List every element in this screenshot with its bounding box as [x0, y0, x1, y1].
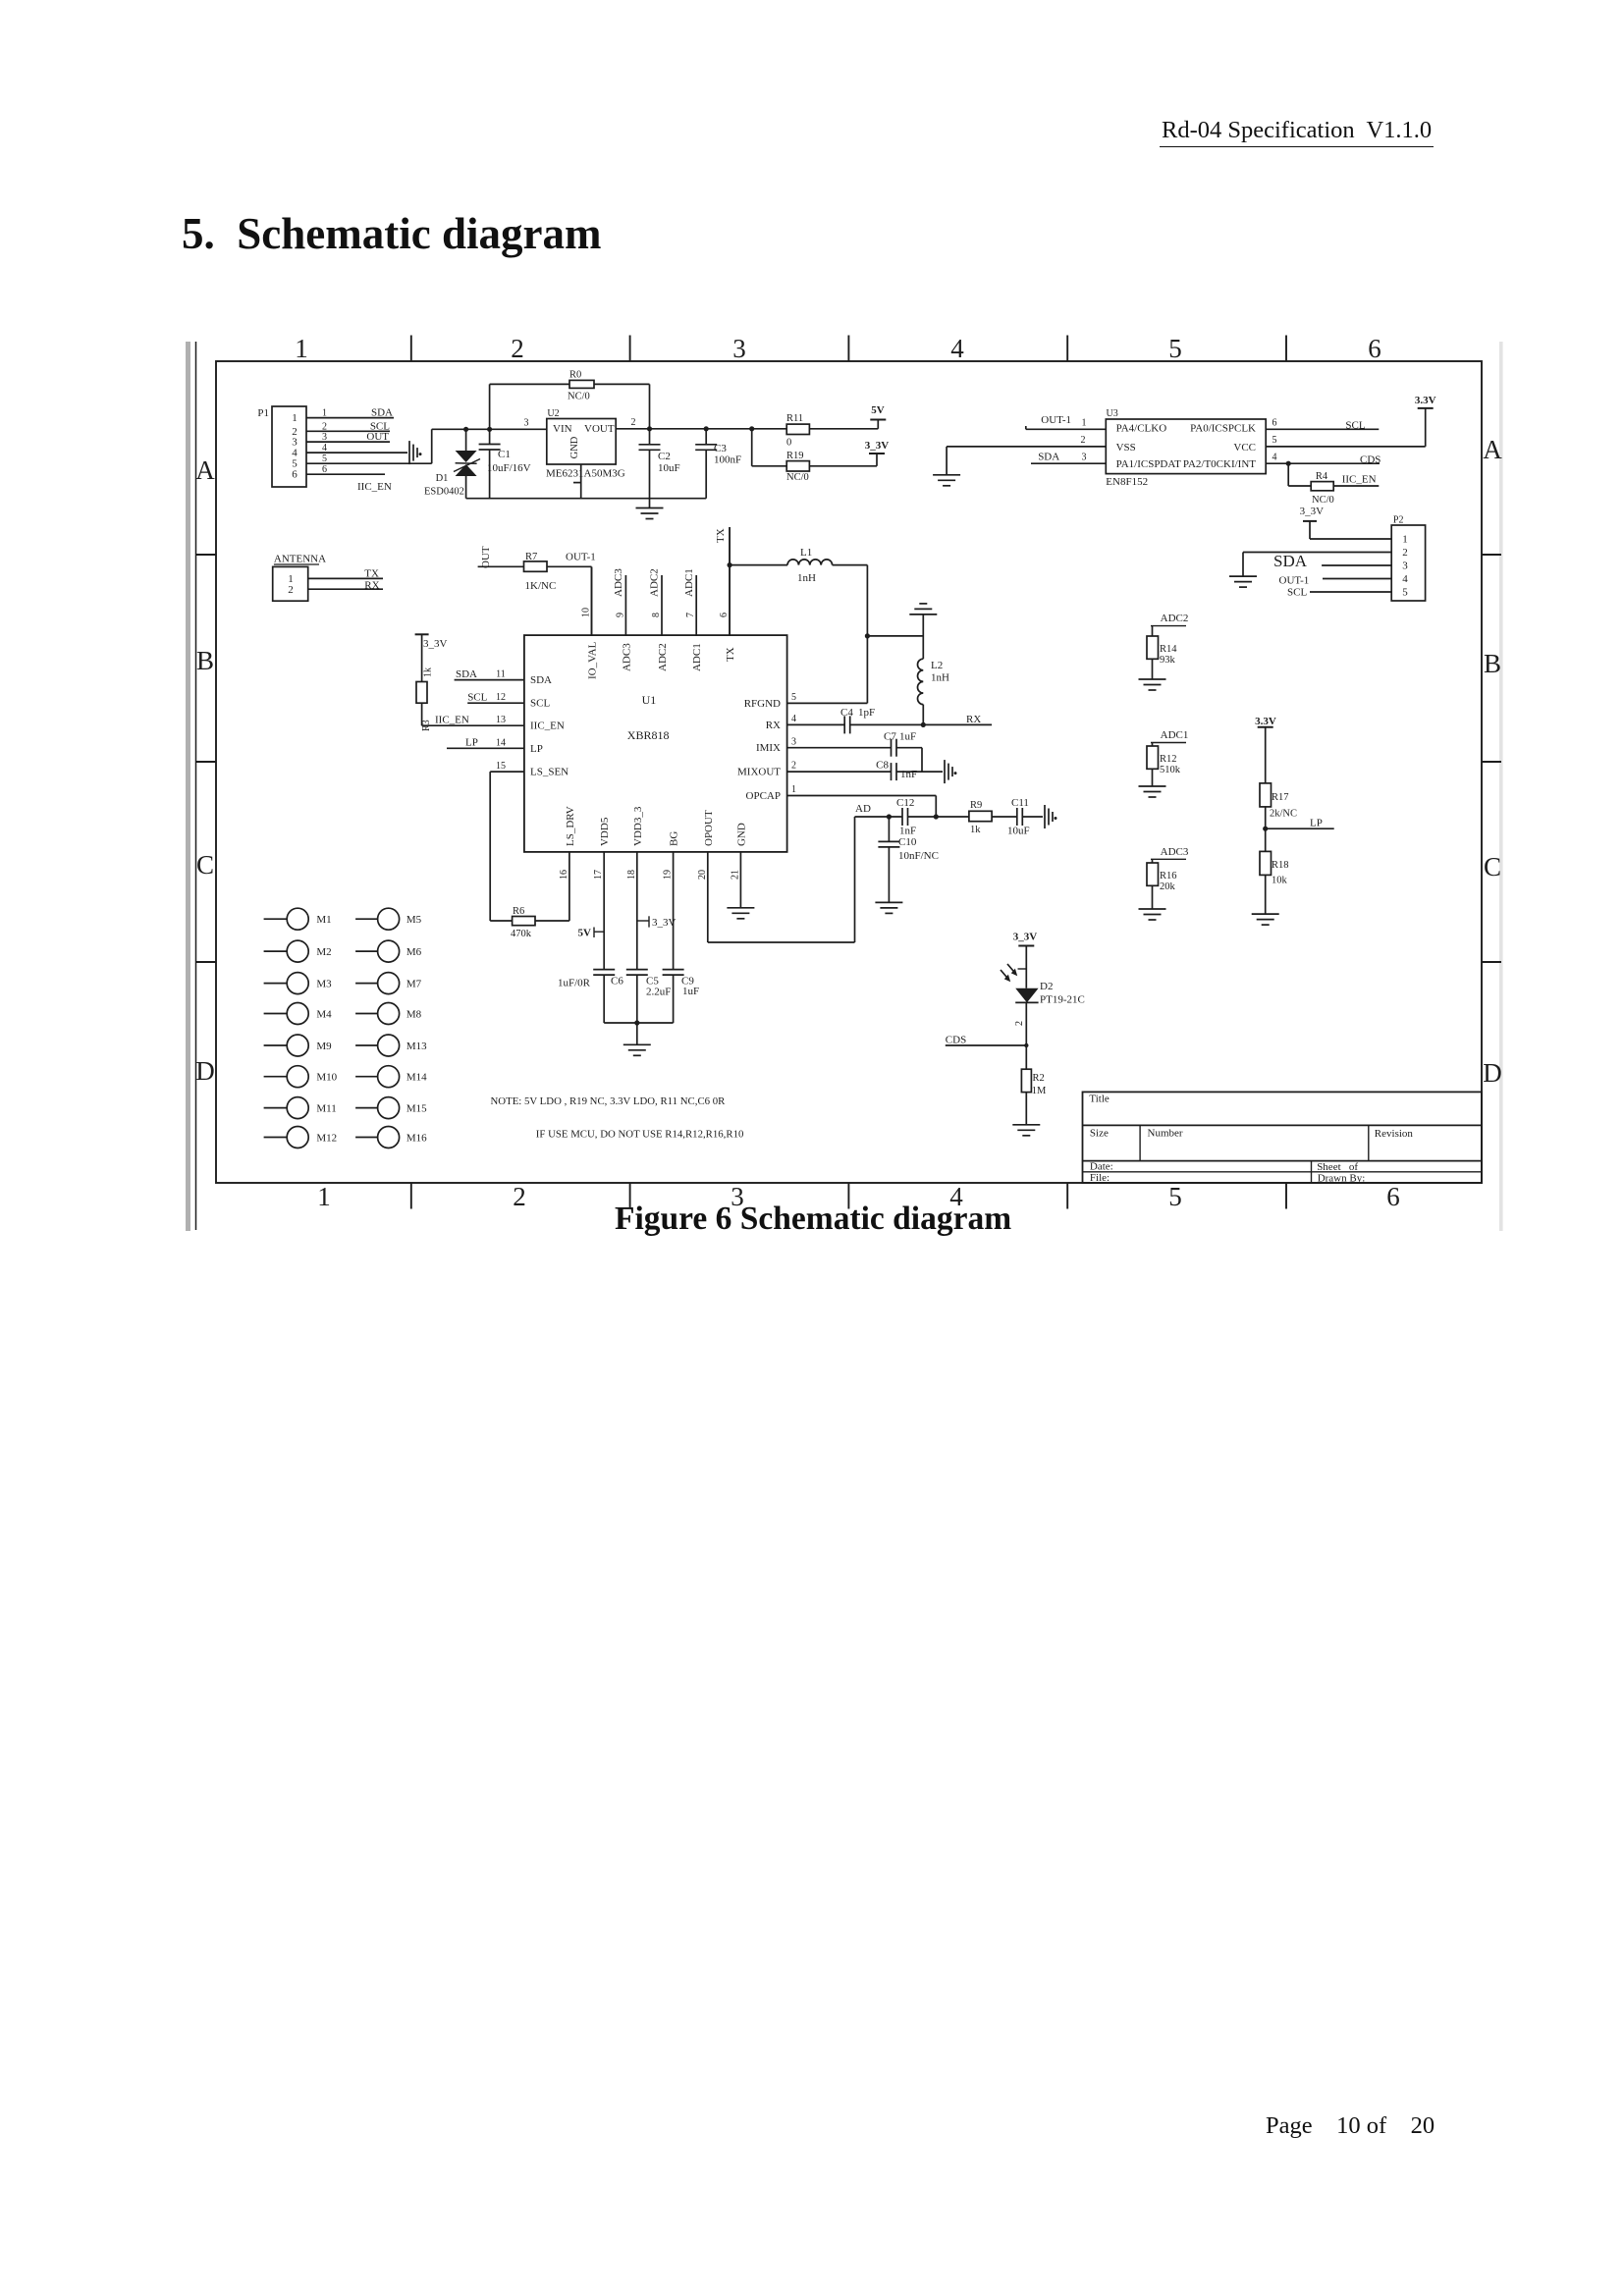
- svg-text:470k: 470k: [511, 929, 532, 939]
- svg-text:Date:: Date:: [1090, 1161, 1113, 1173]
- svg-text:PA1/ICSPDAT: PA1/ICSPDAT: [1116, 458, 1182, 470]
- svg-text:LS_DRV: LS_DRV: [565, 806, 576, 846]
- svg-text:U2: U2: [547, 408, 559, 419]
- svg-text:2k/NC: 2k/NC: [1270, 809, 1297, 820]
- svg-text:OUT-1: OUT-1: [566, 552, 596, 563]
- svg-text:M12: M12: [316, 1133, 337, 1145]
- svg-text:Drawn By:: Drawn By:: [1318, 1172, 1366, 1184]
- svg-text:14: 14: [496, 737, 506, 748]
- svg-text:ADC3: ADC3: [621, 643, 632, 671]
- svg-text:SCL: SCL: [1345, 420, 1365, 432]
- svg-text:2: 2: [1014, 1021, 1025, 1026]
- svg-text:20k: 20k: [1160, 881, 1176, 892]
- svg-text:CDS: CDS: [1360, 454, 1380, 465]
- svg-text:C8: C8: [876, 760, 889, 772]
- svg-text:100nF: 100nF: [714, 454, 741, 466]
- svg-text:R17: R17: [1272, 792, 1289, 803]
- svg-text:R19: R19: [786, 451, 804, 461]
- svg-text:RX: RX: [364, 580, 379, 592]
- svg-text:TX: TX: [364, 567, 379, 579]
- svg-text:NC/0: NC/0: [786, 472, 809, 483]
- svg-text:8: 8: [651, 613, 662, 617]
- svg-text:3_3V: 3_3V: [1300, 506, 1325, 517]
- svg-text:ADC3: ADC3: [613, 568, 624, 597]
- svg-text:MIXOUT: MIXOUT: [737, 767, 781, 778]
- svg-text:16: 16: [559, 870, 569, 880]
- svg-text:GND: GND: [569, 436, 580, 458]
- svg-text:ESD0402: ESD0402: [424, 487, 464, 498]
- svg-text:VDD3_3: VDD3_3: [632, 806, 644, 846]
- svg-text:RX: RX: [966, 714, 981, 725]
- svg-text:6: 6: [322, 464, 327, 475]
- svg-text:1uF/0R: 1uF/0R: [558, 978, 591, 989]
- svg-text:10k: 10k: [1272, 876, 1288, 886]
- svg-text:3: 3: [791, 736, 796, 747]
- svg-text:M10: M10: [316, 1072, 337, 1084]
- svg-text:D: D: [195, 1056, 215, 1086]
- svg-text:R3: R3: [421, 720, 432, 731]
- svg-text:6: 6: [1386, 1182, 1400, 1211]
- svg-text:D2: D2: [1040, 981, 1053, 992]
- svg-text:0: 0: [786, 438, 791, 449]
- svg-text:SDA: SDA: [371, 407, 393, 419]
- svg-text:SDA: SDA: [1038, 452, 1059, 463]
- svg-text:AD: AD: [855, 803, 871, 815]
- svg-text:OPCAP: OPCAP: [746, 790, 781, 802]
- svg-text:VDD5: VDD5: [599, 817, 611, 846]
- svg-text:OUT-1: OUT-1: [1041, 414, 1071, 426]
- svg-text:R9: R9: [970, 800, 982, 811]
- svg-text:PT19-21C: PT19-21C: [1040, 994, 1085, 1006]
- svg-text:PA4/CLKO: PA4/CLKO: [1116, 423, 1167, 435]
- svg-text:VCC: VCC: [1233, 442, 1256, 454]
- svg-text:2: 2: [1081, 435, 1086, 446]
- svg-text:5: 5: [791, 692, 796, 703]
- svg-text:D1: D1: [436, 473, 449, 484]
- svg-text:15: 15: [496, 761, 506, 772]
- svg-text:M1: M1: [316, 914, 331, 926]
- svg-text:5: 5: [1168, 1182, 1182, 1211]
- svg-text:GND: GND: [735, 823, 747, 846]
- svg-text:3: 3: [322, 432, 327, 443]
- svg-text:3: 3: [1402, 561, 1408, 572]
- svg-text:2: 2: [631, 417, 636, 428]
- svg-text:10: 10: [581, 608, 592, 617]
- svg-text:1: 1: [292, 412, 298, 424]
- svg-text:IIC_EN: IIC_EN: [530, 721, 565, 732]
- svg-text:R6: R6: [513, 906, 524, 917]
- svg-text:B: B: [1484, 649, 1501, 678]
- svg-text:3: 3: [524, 418, 529, 429]
- svg-text:C11: C11: [1011, 797, 1029, 809]
- svg-text:IO_VAL: IO_VAL: [587, 641, 599, 679]
- svg-text:OPOUT: OPOUT: [703, 810, 715, 846]
- svg-text:LS_SEN: LS_SEN: [530, 767, 568, 778]
- svg-text:SDA: SDA: [456, 668, 477, 680]
- svg-text:11: 11: [496, 669, 506, 680]
- svg-text:5: 5: [1402, 587, 1408, 599]
- svg-text:R2: R2: [1033, 1073, 1045, 1084]
- svg-text:M9: M9: [316, 1041, 332, 1052]
- svg-text:VIN: VIN: [553, 423, 572, 435]
- svg-text:3.3V: 3.3V: [1415, 395, 1436, 406]
- svg-text:B: B: [196, 646, 214, 675]
- svg-text:M3: M3: [316, 979, 332, 990]
- svg-text:M7: M7: [406, 979, 422, 990]
- svg-text:SCL: SCL: [530, 698, 550, 710]
- svg-text:1: 1: [322, 408, 327, 419]
- svg-text:R4: R4: [1316, 471, 1328, 482]
- svg-text:1pF: 1pF: [858, 707, 875, 719]
- svg-text:Title: Title: [1089, 1094, 1110, 1105]
- svg-text:ADC2: ADC2: [657, 643, 669, 671]
- svg-text:6: 6: [292, 469, 298, 481]
- svg-text:17: 17: [593, 870, 604, 880]
- svg-text:M15: M15: [406, 1103, 427, 1115]
- svg-text:IMIX: IMIX: [756, 742, 781, 754]
- svg-text:C1: C1: [498, 449, 511, 460]
- svg-text:IIC_EN: IIC_EN: [1342, 473, 1377, 485]
- svg-text:1uF: 1uF: [899, 731, 916, 743]
- svg-text:M16: M16: [406, 1133, 427, 1145]
- svg-text:2: 2: [511, 334, 524, 363]
- svg-text:3: 3: [732, 334, 746, 363]
- svg-text:ADC1: ADC1: [691, 643, 703, 671]
- svg-text:6: 6: [1272, 418, 1277, 429]
- svg-text:5V: 5V: [871, 404, 885, 416]
- svg-text:NOTE: 5V LDO , R19 NC, 3.3V L: NOTE: 5V LDO , R19 NC, 3.3V LDO, R11 NC,…: [491, 1095, 727, 1107]
- svg-text:1: 1: [791, 784, 796, 795]
- svg-text:RX: RX: [766, 720, 781, 731]
- svg-text:SCL: SCL: [467, 692, 487, 704]
- svg-text:5: 5: [1272, 435, 1277, 446]
- svg-text:LP: LP: [465, 737, 478, 749]
- svg-text:IIC_EN: IIC_EN: [435, 715, 469, 726]
- svg-text:1nH: 1nH: [797, 572, 816, 584]
- svg-text:13: 13: [496, 715, 506, 725]
- svg-text:Number: Number: [1148, 1128, 1183, 1140]
- svg-text:VSS: VSS: [1116, 442, 1136, 454]
- svg-text:OUT-1: OUT-1: [1279, 575, 1310, 587]
- svg-text:ANTENNA: ANTENNA: [274, 554, 326, 565]
- svg-text:1: 1: [295, 334, 308, 363]
- svg-text:LP: LP: [1310, 818, 1323, 829]
- svg-text:U3: U3: [1107, 408, 1118, 419]
- svg-text:IIC_EN: IIC_EN: [357, 481, 392, 493]
- svg-text:5: 5: [322, 454, 327, 464]
- svg-text:1nF: 1nF: [899, 826, 916, 837]
- svg-text:10uF/16V: 10uF/16V: [487, 462, 531, 474]
- svg-text:L1: L1: [800, 547, 812, 559]
- svg-text:File:: File:: [1090, 1172, 1110, 1184]
- svg-text:ADC2: ADC2: [649, 568, 661, 597]
- svg-text:M5: M5: [406, 914, 422, 926]
- svg-text:Size: Size: [1090, 1128, 1109, 1140]
- svg-text:A: A: [195, 455, 215, 485]
- svg-text:C4: C4: [840, 707, 853, 719]
- svg-text:C: C: [1484, 852, 1501, 881]
- svg-text:2: 2: [288, 584, 294, 596]
- svg-text:2: 2: [791, 761, 796, 772]
- svg-text:PA0/ICSPCLK: PA0/ICSPCLK: [1190, 423, 1256, 435]
- svg-text:18: 18: [626, 870, 637, 880]
- svg-text:4: 4: [322, 443, 327, 454]
- svg-text:EN8F152: EN8F152: [1106, 476, 1148, 488]
- svg-text:1uF: 1uF: [682, 986, 699, 997]
- svg-text:ADC1: ADC1: [683, 568, 695, 597]
- svg-text:SDA: SDA: [1273, 552, 1308, 570]
- svg-text:1: 1: [1082, 418, 1087, 429]
- svg-text:ADC2: ADC2: [1161, 613, 1189, 624]
- svg-text:C7: C7: [884, 731, 896, 743]
- svg-text:Revision: Revision: [1375, 1128, 1414, 1140]
- svg-text:M4: M4: [316, 1009, 332, 1021]
- svg-text:1: 1: [317, 1182, 331, 1211]
- svg-text:1nF: 1nF: [900, 769, 917, 780]
- svg-text:2: 2: [1402, 547, 1408, 559]
- svg-text:LP: LP: [530, 743, 543, 755]
- svg-text:1K/NC: 1K/NC: [525, 580, 557, 592]
- svg-text:4: 4: [791, 714, 796, 724]
- svg-text:4: 4: [949, 1182, 963, 1211]
- svg-text:1k: 1k: [423, 667, 434, 677]
- svg-text:C6: C6: [611, 976, 623, 988]
- svg-text:D: D: [1483, 1058, 1502, 1088]
- svg-text:1M: 1M: [1032, 1086, 1047, 1096]
- svg-text:4: 4: [950, 334, 964, 363]
- svg-text:P1: P1: [257, 407, 269, 419]
- svg-text:5V: 5V: [578, 928, 592, 939]
- svg-text:TX: TX: [715, 528, 727, 543]
- svg-text:R18: R18: [1272, 860, 1289, 871]
- svg-text:R12: R12: [1160, 754, 1177, 765]
- svg-text:M8: M8: [406, 1009, 422, 1021]
- svg-text:NC/0: NC/0: [568, 392, 590, 402]
- svg-text:ADC1: ADC1: [1161, 729, 1189, 741]
- svg-text:4: 4: [1402, 573, 1408, 585]
- svg-text:3: 3: [1082, 453, 1087, 463]
- svg-text:12: 12: [496, 692, 506, 703]
- svg-text:C3: C3: [714, 443, 727, 454]
- svg-text:2: 2: [322, 421, 327, 432]
- svg-text:19: 19: [663, 870, 674, 880]
- svg-text:R11: R11: [786, 413, 803, 424]
- svg-text:20: 20: [697, 870, 708, 880]
- svg-text:M13: M13: [406, 1041, 427, 1052]
- svg-text:7: 7: [685, 613, 696, 617]
- svg-text:21: 21: [730, 870, 740, 880]
- svg-text:10nF/NC: 10nF/NC: [898, 850, 939, 862]
- svg-text:SCL: SCL: [1287, 587, 1307, 599]
- svg-text:XBR818: XBR818: [627, 728, 670, 742]
- svg-text:1k: 1k: [970, 825, 981, 835]
- svg-text:RFGND: RFGND: [744, 698, 781, 710]
- svg-text:M14: M14: [406, 1072, 427, 1084]
- svg-text:C: C: [196, 850, 214, 880]
- svg-text:3_3V: 3_3V: [423, 638, 448, 650]
- svg-text:1nH: 1nH: [931, 672, 949, 684]
- svg-text:BG: BG: [669, 831, 680, 846]
- svg-text:3_3V: 3_3V: [865, 440, 890, 452]
- svg-text:ME6231A50M3G: ME6231A50M3G: [546, 468, 625, 480]
- svg-text:R0: R0: [569, 370, 581, 381]
- svg-text:2.2uF: 2.2uF: [646, 987, 671, 998]
- svg-text:M11: M11: [316, 1103, 336, 1115]
- svg-text:C12: C12: [896, 797, 914, 809]
- svg-text:C2: C2: [658, 451, 671, 462]
- svg-text:R16: R16: [1160, 871, 1177, 881]
- svg-text:TX: TX: [725, 647, 736, 662]
- svg-text:3_3V: 3_3V: [1013, 932, 1038, 943]
- svg-text:5: 5: [1168, 334, 1182, 363]
- svg-text:2: 2: [513, 1182, 526, 1211]
- svg-text:L2: L2: [931, 660, 943, 671]
- svg-text:93k: 93k: [1160, 655, 1176, 666]
- svg-text:CDS: CDS: [946, 1035, 966, 1046]
- svg-text:10uF: 10uF: [1007, 826, 1030, 837]
- svg-text:10uF: 10uF: [658, 462, 680, 474]
- svg-text:P2: P2: [1393, 515, 1404, 526]
- svg-text:ADC3: ADC3: [1161, 846, 1189, 858]
- svg-text:R14: R14: [1160, 644, 1177, 655]
- svg-text:VOUT: VOUT: [584, 423, 615, 435]
- svg-text:PA2/T0CKI/INT: PA2/T0CKI/INT: [1183, 458, 1256, 470]
- svg-text:510k: 510k: [1160, 765, 1181, 775]
- svg-text:M2: M2: [316, 946, 331, 958]
- svg-text:9: 9: [615, 613, 625, 617]
- svg-text:Sheet of: Sheet of: [1317, 1161, 1358, 1173]
- svg-text:4: 4: [1272, 453, 1277, 463]
- svg-text:IF USE MCU, DO NOT USE R14,R12: IF USE MCU, DO NOT USE R14,R12,R16,R10: [536, 1129, 744, 1141]
- svg-text:SDA: SDA: [530, 674, 552, 686]
- svg-text:OUT: OUT: [480, 546, 492, 568]
- svg-text:NC/0: NC/0: [1312, 495, 1334, 506]
- svg-text:3: 3: [731, 1182, 744, 1211]
- svg-text:M6: M6: [406, 946, 422, 958]
- svg-text:U1: U1: [642, 693, 657, 707]
- svg-text:OUT: OUT: [366, 431, 389, 443]
- svg-text:6: 6: [719, 613, 730, 617]
- svg-text:C10: C10: [898, 836, 917, 848]
- svg-text:3.3V: 3.3V: [1255, 716, 1276, 727]
- svg-text:A: A: [1483, 435, 1502, 464]
- svg-text:R7: R7: [525, 552, 537, 562]
- svg-text:6: 6: [1368, 334, 1381, 363]
- svg-text:1: 1: [1402, 534, 1408, 546]
